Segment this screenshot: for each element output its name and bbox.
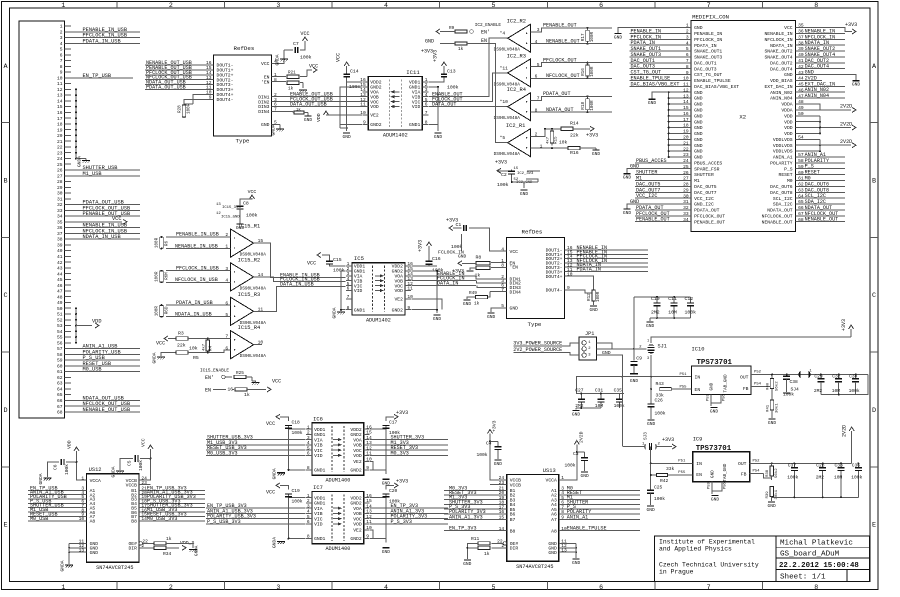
svg-text:8: 8 bbox=[686, 64, 689, 70]
svg-text:43: 43 bbox=[798, 70, 804, 76]
svg-text:1: 1 bbox=[307, 424, 310, 430]
svg-text:38: 38 bbox=[798, 40, 804, 46]
svg-text:8: 8 bbox=[274, 77, 277, 83]
svg-text:GND: GND bbox=[647, 421, 656, 427]
svg-text:VDD: VDD bbox=[92, 319, 102, 325]
ground GNDA (RefDes U1) bbox=[271, 124, 285, 135]
svg-text:GND: GND bbox=[382, 549, 391, 555]
svg-text:4: 4 bbox=[307, 440, 310, 446]
net SHUTTER_USB_3V3 (IC6 pin 3) bbox=[206, 435, 306, 441]
net SNAKE_OUT2 (X2 pin 39) bbox=[796, 46, 845, 52]
svg-text:ADUM1400: ADUM1400 bbox=[325, 477, 350, 483]
net M0 (U513 pin 3) bbox=[559, 485, 640, 491]
svg-text:DOUT4-: DOUT4- bbox=[546, 288, 563, 294]
net NENABLE_IN (X2 pin 36) bbox=[796, 28, 845, 34]
net EN_TP_USB (U512 pin 3) bbox=[28, 485, 87, 491]
svg-text:IC10: IC10 bbox=[692, 346, 705, 352]
svg-text:NENABLE_OUT_USB: NENABLE_OUT_USB bbox=[83, 407, 131, 413]
svg-text:36: 36 bbox=[57, 225, 63, 231]
svg-text:GND2: GND2 bbox=[350, 432, 361, 438]
IC2_R1 pin 2 wire to R14 bbox=[531, 128, 561, 138]
svg-text:VIC: VIC bbox=[314, 516, 323, 522]
net PDATA_IN (RefDes U2 pin 11) bbox=[565, 267, 649, 273]
svg-text:*10: *10 bbox=[500, 99, 509, 105]
svg-text:GS_board_ADuM: GS_board_ADuM bbox=[780, 551, 840, 559]
net EN_TP_3V3 (U513 pin 14) bbox=[444, 526, 507, 532]
svg-text:23: 23 bbox=[499, 480, 505, 486]
svg-text:5: 5 bbox=[225, 312, 228, 318]
svg-text:ENABLE_TPULSE: ENABLE_TPULSE bbox=[694, 78, 731, 84]
svg-text:PFCLOCK_IN_USB: PFCLOCK_IN_USB bbox=[176, 266, 219, 272]
svg-text:+3V3: +3V3 bbox=[396, 410, 408, 416]
svg-text:IC15_GND: IC15_GND bbox=[221, 216, 240, 220]
net PFCLOCK_IN (RefDes U2 pin 14) bbox=[565, 254, 649, 260]
svg-text:VCC: VCC bbox=[309, 64, 318, 70]
svg-text:R42: R42 bbox=[660, 478, 669, 484]
svg-text:IN: IN bbox=[696, 461, 702, 467]
svg-text:SNAKE_OUT1: SNAKE_OUT1 bbox=[694, 49, 722, 55]
net ANIN_A1_USB bbox=[71, 348, 140, 350]
wire C34 rail to riser bbox=[856, 375, 868, 395]
capacitor C3 100k (U513 VCCA) bbox=[564, 451, 588, 471]
svg-text:6: 6 bbox=[307, 519, 310, 525]
svg-text:EN_TP_USB: EN_TP_USB bbox=[83, 73, 112, 79]
svg-text:GND: GND bbox=[694, 155, 703, 161]
svg-text:in Prague: in Prague bbox=[659, 569, 694, 576]
net NDATA_IN (X2 pin 38) bbox=[796, 40, 845, 46]
net POLARITY_USB (U512 pin 5) bbox=[28, 494, 87, 500]
svg-text:VOB: VOB bbox=[353, 511, 362, 517]
svg-text:SHUTTER: SHUTTER bbox=[694, 172, 714, 178]
svg-text:15: 15 bbox=[683, 105, 689, 111]
svg-text:VDD: VDD bbox=[784, 131, 793, 137]
net FCLOCK_IN stub label near C1 bbox=[438, 249, 467, 259]
svg-text:2M2: 2M2 bbox=[816, 475, 825, 481]
capacitors C29 C32 C34 on IC10 output bbox=[814, 374, 860, 396]
ground (C10-C12) bbox=[646, 322, 655, 329]
svg-text:1k: 1k bbox=[474, 302, 480, 307]
svg-text:NDATA_IN_USB: NDATA_IN_USB bbox=[175, 312, 212, 318]
JP1 GND label bbox=[602, 350, 611, 356]
net 2V2_POWER_SOURCE bbox=[513, 347, 579, 355]
svg-text:27: 27 bbox=[683, 176, 689, 182]
net RESET_USB (U512 pin 9) bbox=[28, 511, 87, 517]
net POLARITY_3V3 (U513 pin 16) bbox=[444, 509, 507, 515]
IC7 channel arrows bbox=[333, 507, 342, 526]
svg-text:EN: EN bbox=[205, 387, 211, 393]
IC2 enable net EN wire to IC2_R1 input bbox=[486, 44, 508, 143]
svg-text:42: 42 bbox=[798, 64, 804, 70]
ground (R16) bbox=[592, 148, 601, 157]
svg-text:GND: GND bbox=[694, 149, 703, 155]
svg-text:D: D bbox=[3, 407, 7, 415]
ground (IC5 GND2) bbox=[433, 315, 442, 322]
svg-text:*11: *11 bbox=[500, 65, 509, 71]
svg-text:9: 9 bbox=[366, 534, 369, 540]
net M1 (X2 pin 27) bbox=[635, 176, 691, 182]
ground (C3) bbox=[581, 472, 590, 479]
svg-text:ANIN_A1_3V3: ANIN_A1_3V3 bbox=[449, 514, 483, 520]
svg-text:29: 29 bbox=[683, 188, 689, 194]
solder jumper SJ1 (vertical) bbox=[647, 340, 667, 361]
RefDes U1 left DOUT pin names bbox=[217, 63, 234, 103]
svg-text:P_S_3V3: P_S_3V3 bbox=[391, 519, 412, 525]
U512 B-side pins bbox=[131, 488, 137, 525]
connector X2 MEDIPIX_CON bbox=[691, 13, 796, 231]
svg-text:VDD: VDD bbox=[784, 119, 793, 125]
svg-text:E: E bbox=[872, 522, 876, 530]
svg-text:2V2D: 2V2D bbox=[840, 139, 852, 145]
JP1 pin3 wire to 2V2 rail bbox=[596, 355, 623, 378]
svg-text:GND: GND bbox=[694, 102, 703, 108]
net 2V2D (X2 pin 44) bbox=[796, 76, 822, 82]
svg-text:P52: P52 bbox=[753, 460, 761, 464]
svg-text:PDATA_OUT_USB: PDATA_OUT_USB bbox=[146, 85, 186, 91]
svg-text:10M: 10M bbox=[834, 475, 843, 481]
net EXT_DAC_IN (X2 pin 45) bbox=[796, 81, 845, 87]
svg-text:DS90LV048A: DS90LV048A bbox=[494, 152, 521, 157]
net RESET (U513 pin 4) bbox=[559, 490, 640, 496]
svg-text:3: 3 bbox=[537, 27, 540, 33]
svg-text:VDD: VDD bbox=[66, 440, 72, 449]
svg-text:14: 14 bbox=[57, 99, 63, 105]
ground (C17) bbox=[382, 479, 391, 486]
svg-text:GND: GND bbox=[548, 550, 557, 556]
svg-text:GND: GND bbox=[694, 96, 703, 102]
svg-text:19: 19 bbox=[57, 127, 63, 133]
JP1 pin1 wire bbox=[596, 343, 612, 349]
net DATA_OUT_USB bbox=[272, 102, 369, 108]
svg-text:DS90LV048A: DS90LV048A bbox=[494, 48, 521, 53]
svg-text:100k: 100k bbox=[654, 496, 665, 502]
svg-text:57: 57 bbox=[57, 346, 63, 352]
IC10 FB divider R40 56k2 / R41 30k1 bbox=[751, 374, 779, 419]
svg-text:1k: 1k bbox=[475, 272, 481, 278]
resistor R43 33k (IC10 EN) bbox=[656, 381, 692, 398]
svg-text:+3V3: +3V3 bbox=[492, 420, 498, 432]
X2 pin 43 GND stub bbox=[796, 70, 856, 81]
regulator IC9 TPS73701 bbox=[693, 436, 750, 481]
svg-text:67: 67 bbox=[798, 211, 804, 217]
svg-text:SNAKE_OUT3: SNAKE_OUT3 bbox=[694, 55, 722, 61]
svg-text:4k7: 4k7 bbox=[202, 343, 207, 351]
net ANIN_A1_USB (U512 pin 4) bbox=[28, 490, 87, 496]
net DAC_OUT5 (X2 pin 28) bbox=[635, 181, 691, 187]
IC2 enable input circle EN' bbox=[449, 23, 501, 36]
net PENABLE_OUT_USB (RefDes U1 pin 15) bbox=[145, 65, 214, 71]
wires DOUT4 to termination R12 bbox=[565, 271, 594, 293]
svg-text:17: 17 bbox=[57, 116, 63, 122]
svg-text:2: 2 bbox=[169, 584, 173, 591]
svg-text:6: 6 bbox=[535, 74, 538, 80]
svg-text:21: 21 bbox=[57, 139, 63, 145]
power VCC arrow (IC15 EN) bbox=[267, 379, 281, 392]
svg-text:21: 21 bbox=[683, 140, 689, 146]
svg-text:ANIN_N04: ANIN_N04 bbox=[805, 93, 829, 99]
svg-text:IC2_R3: IC2_R3 bbox=[507, 53, 526, 59]
svg-text:R18: R18 bbox=[581, 102, 586, 110]
svg-text:VCCA: VCCA bbox=[90, 478, 101, 484]
ground (R11) bbox=[463, 560, 472, 567]
svg-text:C31: C31 bbox=[595, 388, 604, 394]
svg-text:C35: C35 bbox=[614, 388, 623, 394]
svg-text:DAC_OUT5: DAC_OUT5 bbox=[694, 184, 717, 190]
buffer IC2_R1 DS90LV048A bbox=[494, 123, 531, 157]
svg-text:13: 13 bbox=[57, 93, 63, 99]
net NDATA_OUT_USB bbox=[71, 399, 140, 401]
net DAC_OUT8 (X2 pin 63) bbox=[796, 187, 845, 193]
svg-text:P55: P55 bbox=[680, 385, 688, 389]
svg-text:EN: EN bbox=[695, 387, 701, 393]
svg-text:ADUM1402: ADUM1402 bbox=[383, 132, 408, 138]
power +3V3 arrow (R14) bbox=[586, 126, 598, 138]
net P_S (X2 pin 59) bbox=[796, 164, 845, 170]
svg-text:46: 46 bbox=[798, 87, 804, 93]
svg-text:VOD: VOD bbox=[394, 288, 403, 294]
svg-text:32: 32 bbox=[683, 205, 689, 211]
net SHUTTER_USB_3V3 (U512 pin 17) bbox=[139, 503, 205, 509]
svg-text:US13: US13 bbox=[543, 468, 556, 474]
svg-text:VDD: VDD bbox=[316, 113, 322, 122]
svg-text:GND: GND bbox=[494, 461, 503, 467]
svg-text:OUT: OUT bbox=[740, 375, 749, 381]
svg-text:20: 20 bbox=[683, 135, 689, 141]
svg-text:GNDA: GNDA bbox=[272, 468, 278, 479]
svg-text:59: 59 bbox=[57, 358, 63, 364]
svg-text:31: 31 bbox=[57, 196, 63, 202]
net ANIN_A1 (X2 pin 57) bbox=[796, 152, 845, 158]
svg-text:VDD_BIAS: VDD_BIAS bbox=[770, 78, 793, 84]
svg-text:C20: C20 bbox=[389, 488, 398, 494]
svg-text:3: 3 bbox=[307, 435, 310, 441]
svg-text:100R: 100R bbox=[596, 291, 601, 302]
capacitor C19 100k (IC7 VDD1) bbox=[266, 483, 306, 540]
svg-text:ADUM1400: ADUM1400 bbox=[325, 546, 350, 552]
svg-text:VIA: VIA bbox=[314, 506, 323, 512]
svg-text:DS90LV048A: DS90LV048A bbox=[494, 116, 521, 121]
jumper JP1 power source selector bbox=[579, 331, 596, 360]
svg-text:A: A bbox=[3, 63, 8, 71]
net RESET_USB_3V3 (U512 pin 15) bbox=[139, 511, 205, 517]
U512 GND pins 11,12,13 bbox=[68, 539, 98, 564]
svg-text:DAC_OUT8: DAC_OUT8 bbox=[770, 190, 793, 196]
net ANIN_A1_USB_3V3 (U512 pin 20) bbox=[139, 490, 205, 496]
svg-text:IC15_3V3: IC15_3V3 bbox=[222, 206, 241, 210]
svg-text:ANIN_A1: ANIN_A1 bbox=[773, 155, 793, 161]
power VDD arrow (IC11 VE2) bbox=[316, 111, 362, 122]
svg-text:VCCB: VCCB bbox=[510, 482, 521, 488]
capacitors C37 C28 C33 C36 on IC9 output bbox=[772, 462, 863, 498]
net VCC_I2C (X2 pin 30) bbox=[635, 193, 691, 199]
svg-text:6: 6 bbox=[599, 2, 603, 9]
IC5 GND2/VE2 wires bbox=[411, 266, 442, 313]
ground (IC11 GND2/C14) bbox=[343, 133, 352, 140]
svg-text:VID: VID bbox=[314, 453, 323, 459]
svg-text:6: 6 bbox=[347, 286, 350, 292]
svg-text:VOA: VOA bbox=[353, 506, 362, 512]
resistor on DIN4 to GND bbox=[272, 108, 309, 115]
svg-text:100k: 100k bbox=[564, 463, 575, 469]
net NFCLOCK_IN (X2 pin 37) bbox=[796, 34, 845, 40]
svg-text:M0: M0 bbox=[787, 178, 793, 184]
svg-text:66: 66 bbox=[57, 398, 63, 404]
resistor R28 100R (termination) bbox=[178, 103, 194, 118]
svg-text:1k: 1k bbox=[296, 108, 301, 113]
svg-text:28: 28 bbox=[683, 182, 689, 188]
svg-text:100k: 100k bbox=[451, 244, 463, 250]
resistor R17 100R termination (IC2_R2) bbox=[581, 27, 612, 45]
ground GNDA (C6) bbox=[38, 473, 52, 484]
svg-text:56k2: 56k2 bbox=[775, 381, 780, 391]
svg-text:VDD2: VDD2 bbox=[350, 427, 361, 433]
svg-text:C6: C6 bbox=[53, 464, 59, 470]
svg-text:EN': EN' bbox=[481, 30, 490, 36]
svg-text:GND: GND bbox=[709, 382, 714, 390]
net NDATA_OUT_USB (RefDes U1 pin 12) bbox=[145, 80, 214, 86]
svg-text:R3: R3 bbox=[178, 330, 184, 336]
svg-text:R34: R34 bbox=[163, 551, 172, 557]
svg-text:GND: GND bbox=[236, 225, 245, 231]
svg-text:GND2: GND2 bbox=[392, 307, 403, 313]
net POLARITY_USB_3V3 (U512 pin 19) bbox=[139, 494, 205, 500]
svg-text:P55: P55 bbox=[678, 471, 686, 475]
capacitors C10 C11 C12 on 3V3 rail bbox=[634, 296, 696, 321]
svg-text:DAC_OUT2: DAC_OUT2 bbox=[770, 60, 793, 66]
svg-text:31: 31 bbox=[683, 199, 689, 205]
svg-text:PBUS_ACCES: PBUS_ACCES bbox=[636, 158, 667, 164]
svg-text:100k: 100k bbox=[849, 388, 860, 394]
svg-text:45: 45 bbox=[798, 82, 804, 88]
capacitors C27 C31 C35 (2V2 rail) bbox=[575, 388, 625, 410]
svg-text:30k1: 30k1 bbox=[774, 489, 779, 499]
svg-text:22: 22 bbox=[683, 146, 689, 152]
svg-text:NDATA_OUT: NDATA_OUT bbox=[546, 107, 574, 113]
ground (X2 pin25) bbox=[623, 174, 632, 181]
svg-text:DAC_BIAS/VBG_EXT: DAC_BIAS/VBG_EXT bbox=[694, 84, 739, 90]
svg-text:E: E bbox=[3, 522, 7, 530]
svg-text:C12: C12 bbox=[685, 296, 694, 302]
ground (R41) bbox=[768, 419, 777, 426]
svg-text:2V2D: 2V2D bbox=[840, 104, 852, 110]
wire 3V3 rail down to C9/JP1 node bbox=[633, 297, 635, 349]
net PFCLOCK_OUT_USB bbox=[71, 209, 140, 211]
IC11 right GND wires bbox=[429, 86, 439, 131]
RefDes U1 EN pin 1 with pullup bbox=[264, 71, 307, 81]
net ANIN_A1_USB_3V3 (IC7 pin 4) bbox=[206, 508, 306, 514]
net PENABLE_IN_USB (IC15_R1 pin 2) bbox=[166, 232, 231, 238]
svg-text:VCC: VCC bbox=[112, 216, 122, 222]
svg-text:PDATA_IN_USB: PDATA_IN_USB bbox=[83, 38, 121, 44]
ground GNDA (IC5) bbox=[332, 307, 346, 318]
svg-text:30: 30 bbox=[683, 193, 689, 199]
title block author/doc text bbox=[779, 540, 859, 582]
svg-text:R41: R41 bbox=[767, 404, 771, 412]
svg-text:63: 63 bbox=[798, 188, 804, 194]
RefDes U1 GND pin 5 bbox=[261, 120, 280, 130]
svg-text:VCC: VCC bbox=[300, 31, 309, 37]
svg-text:RefDes: RefDes bbox=[522, 229, 543, 236]
svg-text:51: 51 bbox=[57, 312, 63, 318]
+3V3 label (R10) bbox=[421, 44, 455, 55]
IC15 outputs to IC5 inputs wires bbox=[261, 243, 346, 311]
RefDes U2 VCC pin 4 bbox=[469, 228, 518, 255]
svg-text:R39: R39 bbox=[766, 491, 770, 499]
net PFCLOCK_IN_USB (IC15_R2 pin 3) bbox=[166, 266, 231, 272]
svg-text:RefDes: RefDes bbox=[234, 45, 255, 52]
ground (DIN4 resistor) bbox=[304, 113, 313, 124]
svg-text:SJ3: SJ3 bbox=[644, 432, 649, 440]
svg-text:C10: C10 bbox=[651, 296, 660, 302]
net SCL_I2C (X2 pin 64) bbox=[796, 193, 845, 199]
net NENABLE_OUT (IC2_R2 pin 4) bbox=[531, 38, 588, 44]
isolator IC11 ADUM1402 bbox=[368, 77, 422, 131]
svg-text:44: 44 bbox=[57, 271, 63, 277]
svg-text:GND: GND bbox=[572, 560, 581, 566]
svg-text:39: 39 bbox=[57, 243, 63, 249]
ground (R49) bbox=[463, 300, 472, 307]
svg-text:NENABLE_OUT: NENABLE_OUT bbox=[762, 219, 793, 225]
net P_S_USB_3V3 (U512 pin 18) bbox=[139, 498, 205, 504]
net SHUTTER_USB bbox=[71, 169, 140, 171]
X2 pin 1 GND stub bbox=[618, 23, 691, 34]
svg-text:7: 7 bbox=[60, 58, 63, 64]
capacitor C15 100k (IC5 VDD1) bbox=[307, 253, 345, 274]
net EN_TP_USB_3V3 (IC7 pin 3) bbox=[206, 503, 306, 509]
op-amp-driver IC RefDes 2 (LVDS driver, Type) bbox=[507, 238, 565, 319]
svg-text:GND: GND bbox=[694, 113, 703, 119]
svg-text:2: 2 bbox=[60, 29, 63, 35]
svg-text:5: 5 bbox=[60, 47, 63, 53]
svg-text:46: 46 bbox=[57, 283, 63, 289]
svg-text:7: 7 bbox=[686, 58, 689, 64]
net NFCLOCK_IN_USB (IC15_R2 pin 4) bbox=[166, 277, 231, 283]
svg-text:D: D bbox=[872, 407, 876, 415]
svg-text:9: 9 bbox=[407, 305, 410, 311]
svg-text:8: 8 bbox=[535, 107, 538, 113]
IC7 left pins bbox=[306, 493, 325, 542]
svg-text:PENABLE_OUT: PENABLE_OUT bbox=[694, 219, 725, 225]
svg-text:1: 1 bbox=[540, 143, 543, 149]
net SNAKE_OUT3 (X2 pin 6) bbox=[630, 52, 692, 58]
svg-text:47: 47 bbox=[57, 289, 63, 295]
net PBUS_ACCES (X2 pin 24) bbox=[635, 158, 691, 164]
svg-text:GNDA: GNDA bbox=[195, 545, 200, 556]
svg-text:VE2: VE2 bbox=[394, 297, 403, 303]
net RESET_3V3 (IC6 pin 12) bbox=[370, 445, 448, 451]
svg-text:GND: GND bbox=[852, 82, 861, 88]
svg-text:22k: 22k bbox=[177, 342, 186, 348]
svg-text:EN: EN bbox=[696, 472, 702, 478]
svg-text:13: 13 bbox=[561, 547, 567, 553]
svg-text:OUT: OUT bbox=[738, 461, 747, 467]
svg-text:9: 9 bbox=[366, 465, 369, 471]
svg-text:DIN4: DIN4 bbox=[510, 289, 521, 295]
net PDATA_OUT (X2 pin 32) bbox=[635, 205, 691, 211]
svg-text:9: 9 bbox=[561, 515, 564, 521]
net PFCLOCK_OUT (IC2_R3 pin 5) bbox=[531, 57, 588, 68]
svg-text:100k: 100k bbox=[851, 475, 862, 481]
IC15_R3 output pin 11 wire bbox=[254, 306, 271, 312]
svg-text:2: 2 bbox=[307, 498, 310, 504]
ground (R12) bbox=[589, 306, 598, 313]
ground (R8 'EN) bbox=[467, 270, 474, 272]
svg-text:26: 26 bbox=[683, 170, 689, 176]
svg-text:100k: 100k bbox=[447, 85, 459, 91]
svg-text:Type: Type bbox=[528, 321, 542, 328]
power +3V3 arrow (X2 pin 35) bbox=[796, 22, 858, 34]
svg-text:GND: GND bbox=[710, 470, 715, 478]
svg-text:2: 2 bbox=[501, 543, 504, 549]
